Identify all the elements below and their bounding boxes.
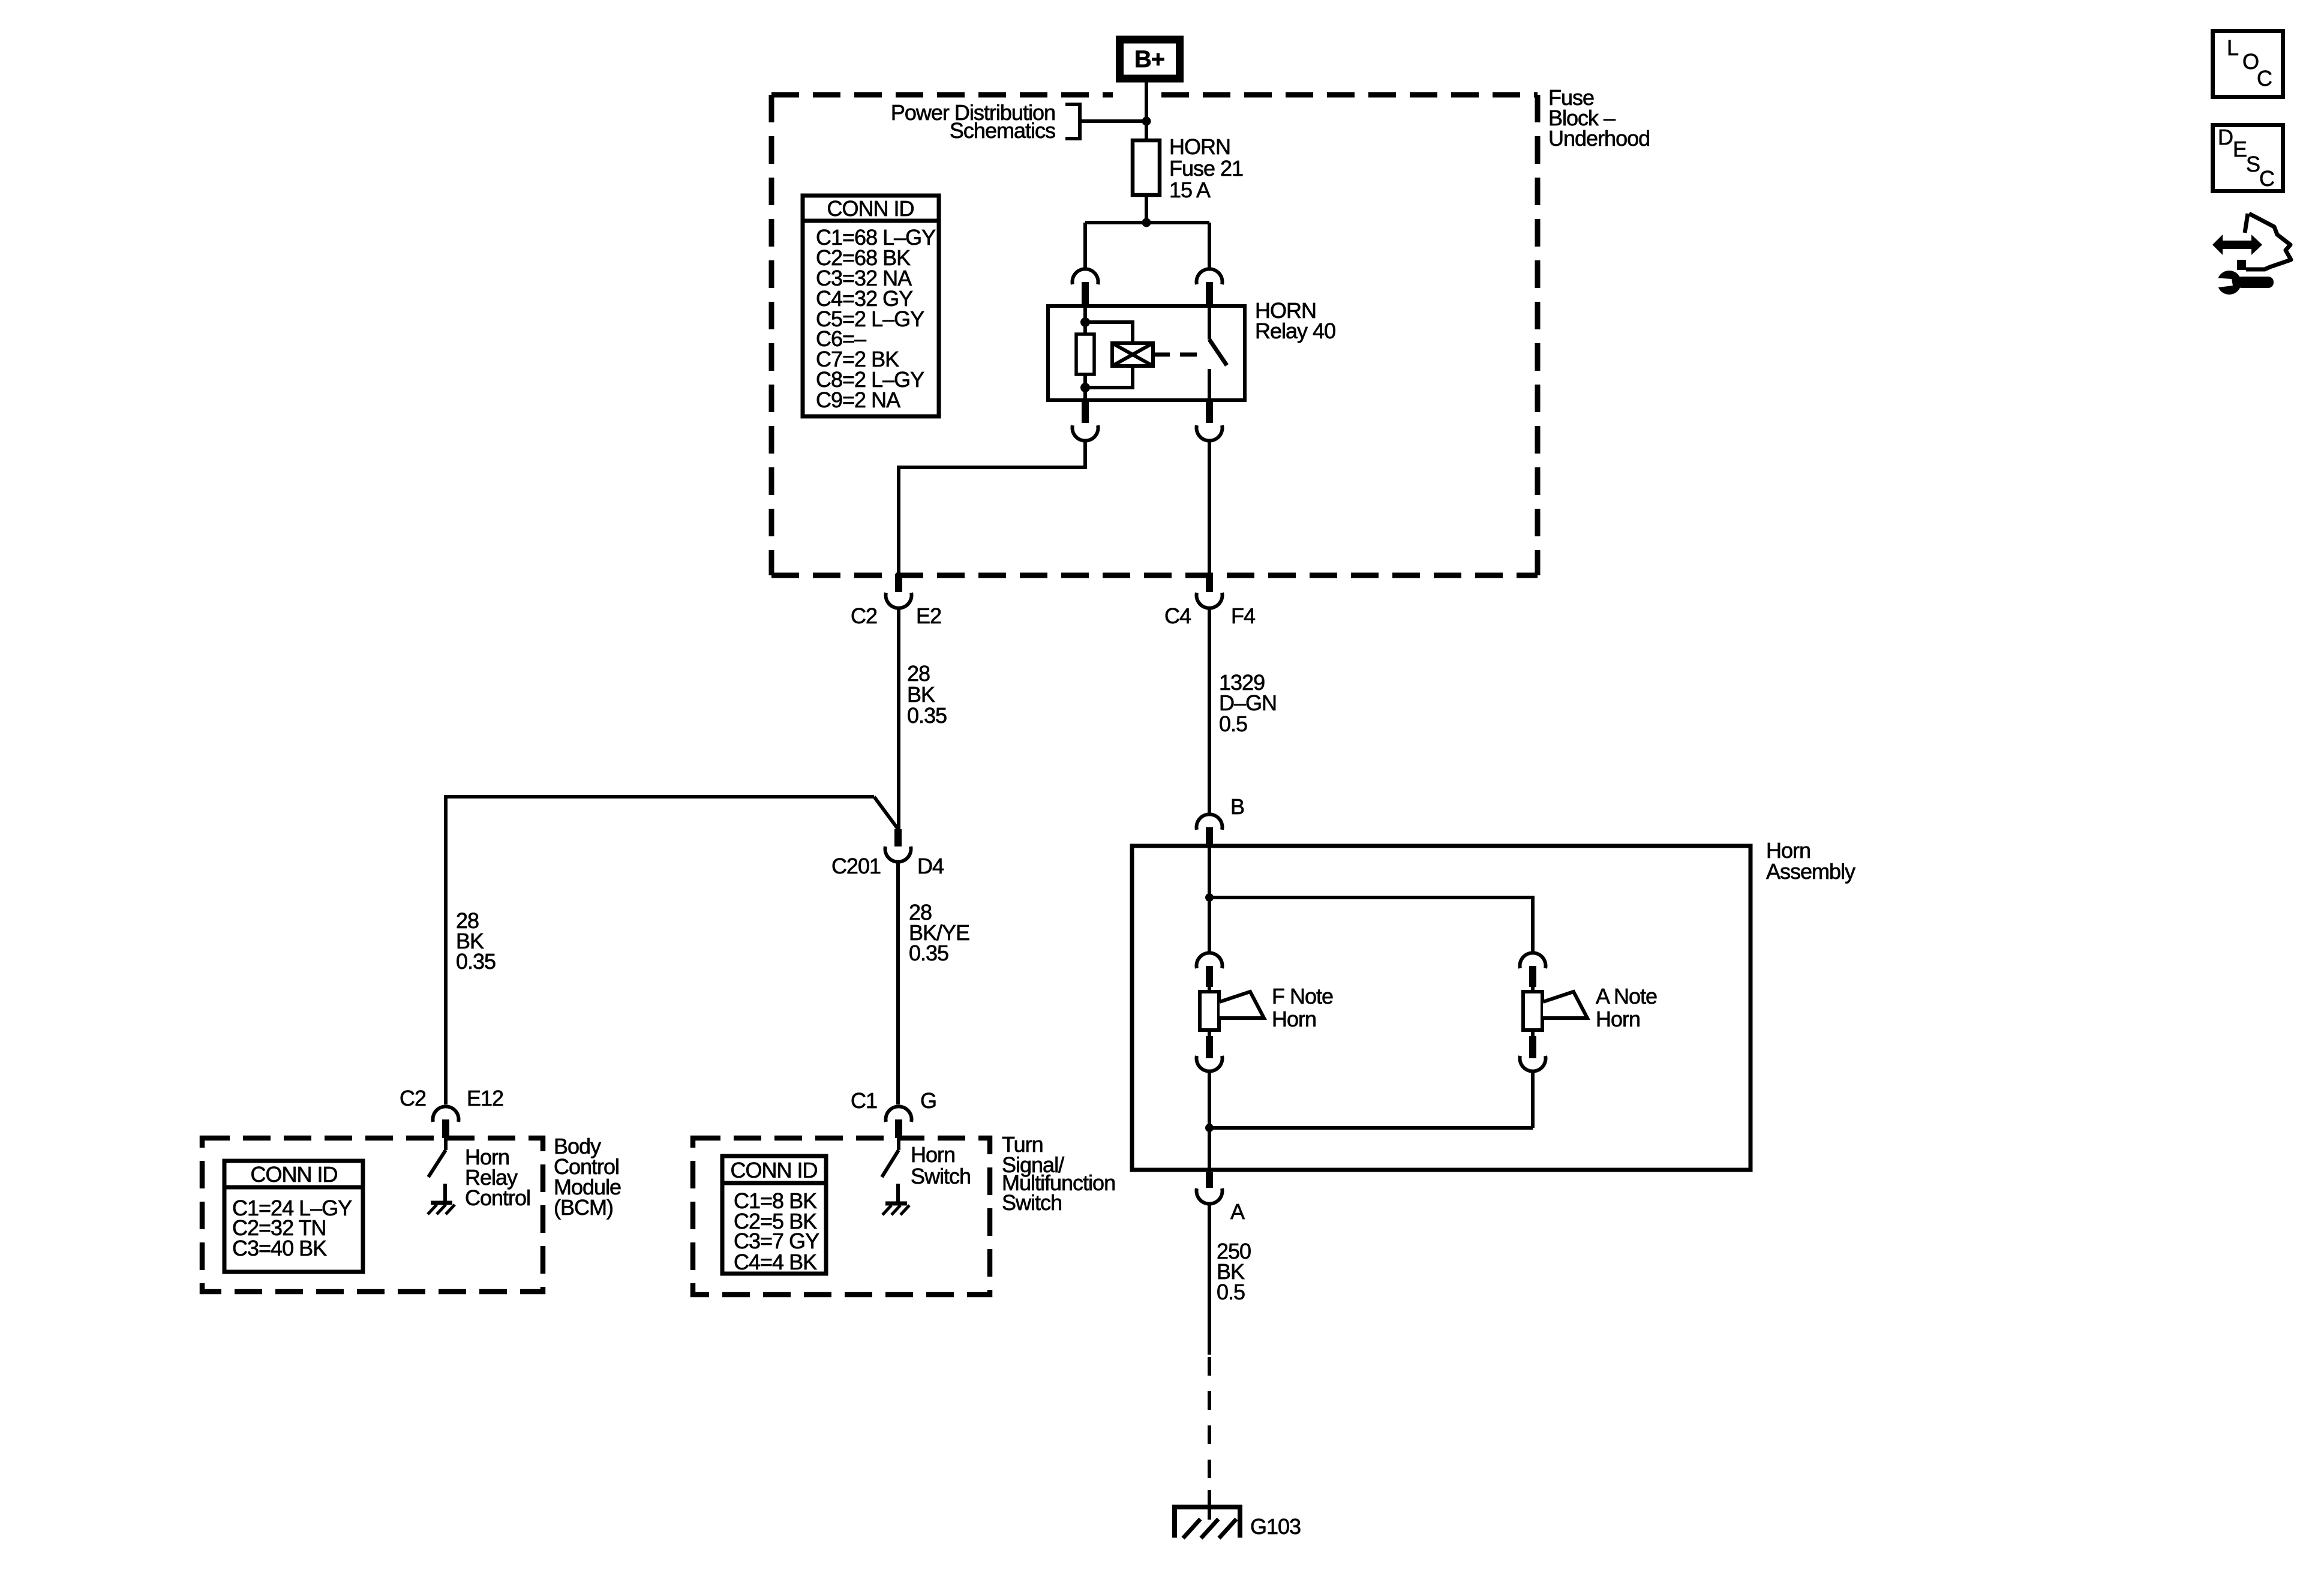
svg-text:F4: F4: [1231, 604, 1255, 628]
F-note horn bell: [1220, 992, 1264, 1018]
svg-text:Relay 40: Relay 40: [1255, 319, 1335, 343]
F-note horn bottom arc: [1197, 1056, 1223, 1071]
connector arc relay pin 4 bottom: [1197, 425, 1223, 441]
F-note horn top pin: [1206, 966, 1213, 987]
svg-text:0.5: 0.5: [1217, 1280, 1245, 1304]
service icon double arrow: [2212, 235, 2262, 255]
svg-text:C2: C2: [851, 604, 877, 628]
svg-text:F Note: F Note: [1272, 984, 1333, 1008]
svg-text:A Note: A Note: [1596, 984, 1657, 1008]
relay node top: [1080, 317, 1090, 327]
connector C2/E2 pin: [895, 574, 902, 592]
F-note horn element: [1208, 987, 1211, 992]
svg-text:D: D: [2218, 125, 2233, 149]
svg-text:C201: C201: [831, 854, 881, 878]
connector C1/G pin: [895, 1119, 902, 1138]
horn assembly box: [1132, 846, 1750, 1170]
wire label 1329 D-GN 0.5: [1219, 670, 1277, 736]
connector A pin: [1206, 1172, 1213, 1188]
svg-text:D4: D4: [917, 854, 944, 878]
svg-text:B+: B+: [1134, 46, 1164, 73]
svg-text:Underhood: Underhood: [1548, 126, 1650, 151]
svg-text:Switch: Switch: [1002, 1190, 1062, 1215]
svg-text:C3=40 BK: C3=40 BK: [232, 1236, 327, 1260]
svg-text:S: S: [2246, 152, 2260, 176]
A-note horn top arc: [1520, 953, 1546, 968]
svg-text:Fuse 21: Fuse 21: [1169, 156, 1243, 181]
wire branch right drop: [1208, 223, 1211, 269]
svg-text:Control: Control: [465, 1185, 530, 1210]
F-note horn top arc: [1197, 953, 1223, 968]
svg-text:G: G: [920, 1088, 936, 1113]
wire relay to C2/E2: [899, 441, 1085, 574]
svg-text:Horn: Horn: [1272, 1007, 1316, 1031]
svg-text:CONN ID: CONN ID: [251, 1162, 338, 1187]
connector arc relay pin 1 top: [1072, 269, 1098, 284]
svg-text:G103: G103: [1250, 1514, 1301, 1539]
A-note horn bell: [1543, 992, 1587, 1018]
connector A arc: [1197, 1188, 1223, 1204]
svg-text:E: E: [2233, 137, 2247, 161]
svg-text:15 A: 15 A: [1169, 178, 1211, 202]
wire branch to BCM with corner: [446, 797, 874, 1104]
fuse block underhood dashed box: [771, 95, 1538, 575]
DESC icon box: [2213, 125, 2283, 191]
svg-text:C2: C2: [400, 1086, 426, 1110]
relay wire resistor to bottom: [1083, 374, 1087, 398]
wire A to ground: [1208, 1204, 1211, 1355]
svg-text:0.35: 0.35: [909, 941, 948, 965]
A-note horn bottom arc: [1520, 1056, 1546, 1071]
svg-text:C4: C4: [1164, 604, 1191, 628]
LOC icon box: [2213, 31, 2283, 97]
svg-text:0.5: 0.5: [1219, 712, 1247, 736]
node junction top of horn assembly: [1205, 893, 1214, 902]
svg-text:C4=4 BK: C4=4 BK: [734, 1250, 817, 1274]
connector B arc: [1197, 814, 1223, 830]
wire C2/E2 down to C201: [897, 608, 900, 829]
svg-text:Horn: Horn: [1596, 1007, 1640, 1031]
wire B+ to fuse: [1145, 82, 1148, 140]
connector C2/E2 arc: [886, 593, 912, 608]
svg-text:L: L: [2227, 35, 2238, 60]
svg-text:HORN: HORN: [1169, 134, 1230, 159]
svg-text:Schematics: Schematics: [950, 118, 1055, 143]
svg-text:Horn: Horn: [911, 1142, 955, 1167]
fuse HORN Fuse 21 15A: [1133, 140, 1160, 195]
wire branch left drop: [1083, 223, 1087, 269]
svg-text:C9=2 NA: C9=2 NA: [816, 388, 900, 412]
ground G103: [1175, 1507, 1240, 1538]
svg-text:Assembly: Assembly: [1766, 859, 1855, 884]
branch wire to relay pins: [1085, 221, 1209, 224]
pin relay bottom-right: [1206, 400, 1213, 423]
wire to F-note horn: [1208, 897, 1211, 953]
wire A-note to bottom junction: [1531, 1071, 1535, 1128]
pin relay top-right: [1206, 282, 1213, 308]
svg-text:C: C: [2257, 66, 2272, 91]
wire label 28 BK 0.35 left: [907, 661, 947, 728]
connector C201/D4 arc: [885, 846, 911, 862]
A-note horn bottom pin: [1531, 1030, 1535, 1036]
node junction bottom of horn assembly: [1205, 1124, 1214, 1132]
svg-text:CONN ID: CONN ID: [827, 196, 914, 221]
BCM CONN ID table: [224, 1161, 363, 1272]
wire fuse to branch node: [1145, 195, 1148, 223]
relay coil to contact dashed link: [1153, 353, 1203, 357]
fuse block CONN ID table: [803, 196, 939, 416]
svg-text:0.35: 0.35: [456, 949, 496, 974]
bracket for power distribution reference: [1065, 104, 1146, 139]
relay HORN Relay 40 box: [1048, 306, 1245, 400]
A-note horn top pin: [1529, 966, 1536, 987]
relay coil-side wire: [1083, 308, 1087, 334]
wire label 28 BK 0.35 BCM branch: [456, 908, 496, 974]
mini ground BCM: [431, 1201, 452, 1205]
relay switch contact wires: [1208, 308, 1211, 340]
connector arc relay pin 3 bottom: [1072, 425, 1098, 441]
connector C201/D4 pin: [894, 829, 902, 846]
pin relay bottom-left: [1082, 400, 1089, 423]
F-note horn bottom pin: [1208, 1030, 1211, 1036]
wire F-note to bottom junction: [1208, 1071, 1211, 1128]
wire B into assembly: [1208, 846, 1211, 897]
turn signal dashed box: [693, 1138, 990, 1295]
svg-text:C: C: [2259, 166, 2274, 191]
wire C201 to C1/G: [896, 862, 900, 1104]
connector C4/F4 pin: [1206, 574, 1213, 592]
wire label 250 BK 0.5: [1217, 1239, 1251, 1304]
B+ battery feed box: [1120, 40, 1180, 79]
svg-text:B: B: [1230, 794, 1244, 819]
relay switch blade: [1209, 340, 1227, 365]
node junction at B+ feed: [1142, 117, 1151, 126]
node junction below fuse: [1142, 218, 1151, 227]
relay coil box with X: [1112, 343, 1153, 366]
horn switch: [897, 1138, 900, 1150]
label Body Control Module (BCM): [554, 1134, 621, 1220]
connector C2/E12 pin: [442, 1119, 449, 1138]
relay coil branch wires: [1085, 322, 1133, 343]
svg-text:(BCM): (BCM): [554, 1195, 613, 1220]
wire top horizontal to A-note branch: [1209, 897, 1533, 953]
wire relay to C4/F4: [1208, 441, 1211, 574]
wire diagonal into C201: [874, 797, 898, 829]
wire C4/F4 down to B: [1208, 608, 1211, 813]
label Turn Signal / Multifunction Switch: [1002, 1132, 1115, 1215]
dashed wire to ground: [1208, 1357, 1211, 1494]
Power Distribution Schematics reference label: [891, 100, 1055, 143]
svg-text:Switch: Switch: [911, 1164, 971, 1188]
svg-text:0.35: 0.35: [907, 703, 947, 728]
svg-text:A: A: [1230, 1199, 1245, 1224]
svg-text:E12: E12: [467, 1086, 503, 1110]
BCM dashed box: [202, 1138, 543, 1292]
service icon outline: [2245, 214, 2248, 233]
connector C2/E12 arc: [433, 1106, 459, 1122]
wire bottom horizontal: [1209, 1126, 1533, 1130]
horn relay control switch: [444, 1138, 448, 1150]
label Fuse Block - Underhood: [1548, 85, 1650, 151]
wire to box bottom: [1208, 1128, 1211, 1172]
svg-text:C1: C1: [851, 1088, 877, 1113]
relay node bottom: [1080, 383, 1090, 392]
connector B pin: [1206, 827, 1213, 846]
turn signal CONN ID table: [722, 1156, 826, 1274]
relay resistor: [1076, 334, 1094, 374]
pin relay top-left: [1082, 282, 1089, 308]
svg-text:O: O: [2242, 49, 2259, 74]
service icon wrench: [2217, 271, 2241, 295]
A-note horn element: [1531, 987, 1535, 992]
connector C1/G arc: [886, 1106, 912, 1122]
wire label 28 BK/YE 0.35: [909, 900, 969, 965]
connector C4/F4 arc: [1197, 593, 1223, 608]
svg-text:CONN ID: CONN ID: [731, 1158, 818, 1182]
svg-text:E2: E2: [916, 604, 941, 628]
connector arc relay pin 2 top: [1197, 269, 1223, 284]
mini ground horn switch: [885, 1202, 907, 1206]
